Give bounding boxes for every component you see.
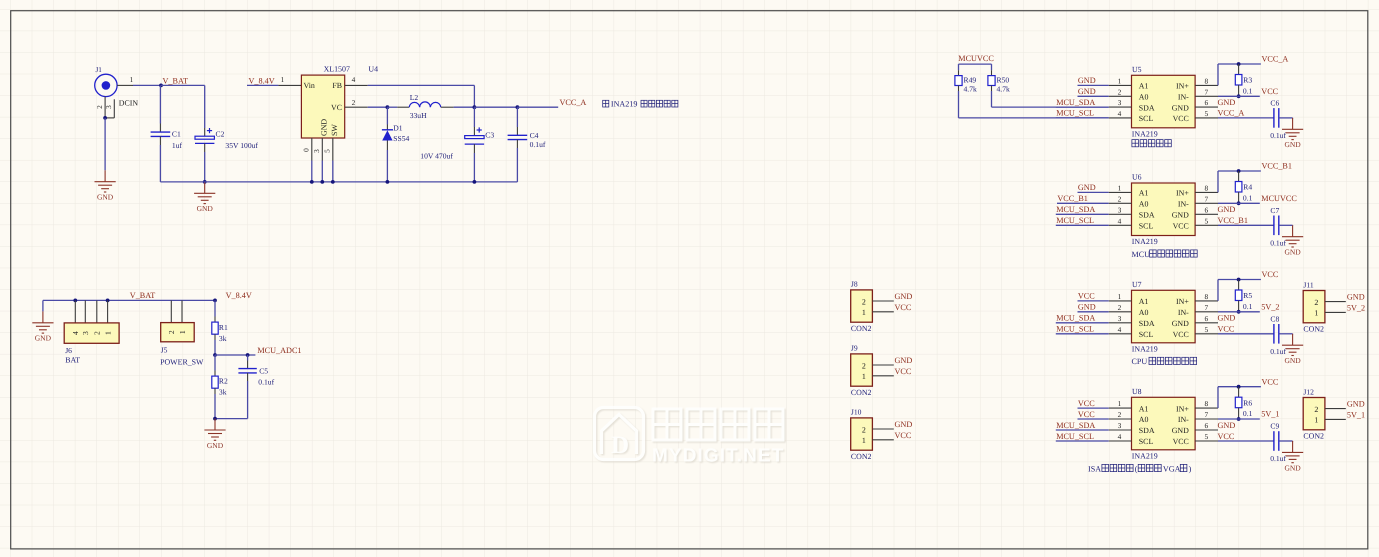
capacitor C4 (516, 107, 518, 127)
capacitor C8 (1274, 324, 1279, 344)
svg-text:5: 5 (322, 149, 331, 153)
junction U4 pin5/rail (331, 180, 335, 184)
U8 pin 7 (1195, 418, 1218, 420)
svg-text:SDA: SDA (1139, 103, 1155, 112)
op-amp U7 INA219 body (1132, 290, 1196, 343)
svg-text:VGA: VGA (1163, 464, 1181, 473)
wire VCC to C6 (1218, 117, 1274, 119)
svg-text:CON2: CON2 (851, 324, 872, 333)
svg-text:2: 2 (1118, 303, 1122, 312)
wire net VCC (1078, 418, 1109, 420)
svg-text:CON2: CON2 (851, 452, 872, 461)
svg-text:SDA: SDA (1139, 319, 1155, 328)
svg-text:VCC: VCC (1173, 114, 1189, 123)
svg-text:7: 7 (1204, 303, 1208, 312)
capacitor C5 (247, 355, 249, 361)
svg-text:SW: SW (330, 124, 339, 136)
watermark chinese characters (653, 409, 783, 440)
svg-text:0.1uf: 0.1uf (1270, 347, 1286, 356)
svg-text:VCC: VCC (1262, 377, 1279, 386)
junction D1 node (386, 105, 390, 109)
wire net VCC_B1 (1057, 202, 1109, 204)
wire U8 IN+ to VCC (1217, 387, 1219, 408)
junction C3/FB node (473, 105, 477, 109)
resistor R5 (1238, 280, 1240, 291)
wire net GND (1078, 95, 1109, 97)
U7 pin 8 (1195, 300, 1218, 302)
connector J12 CON2 (1303, 398, 1325, 430)
J9 pin 1 (872, 375, 893, 377)
svg-text:GND: GND (895, 420, 913, 429)
svg-text:0.1: 0.1 (1243, 86, 1253, 95)
junction R4 top (1237, 169, 1241, 173)
J1 pin 3 (113, 99, 115, 118)
U4 bottom pin 0 (311, 138, 313, 161)
svg-text:XL1507: XL1507 (324, 64, 350, 73)
svg-text:SDA: SDA (1139, 211, 1155, 220)
svg-text:1: 1 (1118, 76, 1122, 85)
svg-text:5V_2: 5V_2 (1261, 302, 1279, 311)
svg-text:VCC: VCC (1078, 292, 1095, 301)
svg-text:J1: J1 (96, 66, 103, 74)
svg-text:6: 6 (1204, 421, 1208, 430)
svg-text:GND: GND (895, 356, 913, 365)
op-amp U6 INA219 body (1132, 183, 1196, 236)
svg-text:4: 4 (1118, 325, 1122, 334)
J8 pin 2 (872, 300, 893, 302)
wire net GND (1078, 191, 1109, 193)
ground GND (divider) (204, 419, 225, 441)
wire net VCC (1078, 407, 1109, 409)
svg-text:33uH: 33uH (410, 111, 427, 120)
resistor R50 (991, 70, 993, 75)
wire VC to D1 node (368, 106, 388, 108)
junction R5/IN- (1237, 310, 1241, 314)
svg-text:U8: U8 (1132, 387, 1142, 396)
connector J9 CON2 (851, 354, 873, 386)
J8 pin 1 (872, 311, 893, 313)
junction R3/IN- (1237, 94, 1241, 98)
svg-text:3: 3 (1118, 314, 1122, 323)
svg-text:0.1uf: 0.1uf (1270, 454, 1286, 463)
svg-text:VCC: VCC (1218, 325, 1235, 334)
junction J1 pins (103, 116, 107, 120)
U7 pin 3 (1109, 322, 1132, 324)
U7 pin 2 (1109, 311, 1132, 313)
junction U4 pin3/rail (320, 180, 324, 184)
U6 pin 1 (1109, 191, 1132, 193)
svg-text:0.1uf: 0.1uf (530, 140, 546, 149)
J10 pin 2 (872, 428, 893, 430)
U6 pin 5 (1195, 224, 1218, 226)
svg-text:1: 1 (1314, 309, 1318, 318)
wire FB drop (473, 85, 475, 107)
svg-text:MCU_SDA: MCU_SDA (1056, 421, 1095, 430)
svg-text:J11: J11 (1303, 280, 1313, 289)
svg-text:1: 1 (1118, 183, 1122, 192)
wire V_BAT node to C2 (161, 84, 205, 86)
svg-text:4: 4 (1118, 432, 1122, 441)
capacitor C7 (1274, 216, 1279, 236)
J10 pin 1 (872, 439, 893, 441)
svg-text:GND: GND (320, 119, 329, 136)
J11 pin 2 (1325, 301, 1346, 303)
svg-text:2: 2 (167, 330, 176, 334)
svg-text:1: 1 (1118, 292, 1122, 301)
svg-text:A0: A0 (1139, 308, 1149, 317)
ground GND (battery) (32, 311, 53, 333)
svg-text:1: 1 (1118, 399, 1122, 408)
wire U6 IN+ to VCC_B1 (1217, 171, 1219, 192)
svg-text:2: 2 (862, 425, 866, 434)
wire net MCU_SDA (1056, 106, 1109, 108)
svg-text:2: 2 (1314, 298, 1318, 307)
svg-text:MCU_ADC1: MCU_ADC1 (257, 346, 301, 355)
svg-text:VCC: VCC (1173, 222, 1189, 231)
junction R2/ground (213, 417, 217, 421)
svg-text:GND: GND (1284, 463, 1301, 472)
svg-text:MCU_SCL: MCU_SCL (1056, 432, 1094, 441)
ground GND (C6) (1282, 118, 1303, 140)
svg-text:A0: A0 (1139, 415, 1149, 424)
junction C5 (246, 353, 250, 357)
svg-text:2: 2 (1118, 87, 1122, 96)
wire FB to output node (368, 84, 475, 86)
J11 pin 1 (1325, 311, 1346, 313)
svg-text:J12: J12 (1303, 387, 1314, 396)
svg-text:7: 7 (1204, 87, 1208, 96)
svg-text:4: 4 (1118, 109, 1122, 118)
svg-text:3: 3 (312, 149, 321, 153)
svg-text:4: 4 (352, 75, 356, 84)
junction C3/rail (473, 180, 477, 184)
svg-text:GND: GND (1172, 426, 1189, 435)
resistor R1 (214, 300, 216, 316)
svg-text:VCC_A: VCC_A (1262, 55, 1289, 64)
svg-text:INA219: INA219 (1132, 129, 1158, 138)
svg-text:D1: D1 (393, 123, 402, 132)
svg-text:C1: C1 (172, 130, 181, 139)
svg-text:2: 2 (862, 297, 866, 306)
wire VCC to C8 (1218, 333, 1274, 335)
U8 pin 2 (1109, 418, 1132, 420)
U8 pin 5 (1195, 440, 1218, 442)
svg-text:IN+: IN+ (1176, 404, 1189, 413)
wire IN- to VCC (1218, 95, 1260, 97)
wire MCU_ADC1 (215, 354, 255, 356)
wire IN- to MCUVCC (1218, 202, 1260, 204)
svg-text:5: 5 (1204, 325, 1208, 334)
svg-text:2: 2 (1314, 405, 1318, 414)
U6 pin 2 (1109, 202, 1132, 204)
capacitor C9 (1274, 431, 1279, 451)
svg-text:VCC: VCC (1173, 437, 1189, 446)
wire V_8.4V to U4 (247, 84, 278, 86)
U6 pin 7 (1195, 202, 1218, 204)
svg-text:BAT: BAT (65, 355, 80, 364)
svg-text:J8: J8 (851, 280, 858, 289)
svg-text:1: 1 (862, 308, 866, 317)
wire J1 to V_BAT node (133, 84, 161, 86)
wire IN- to 5V_1 (1218, 418, 1260, 420)
junction R3 top (1237, 62, 1241, 66)
svg-text:IN-: IN- (1178, 415, 1189, 424)
wire C8 to ground (1279, 333, 1293, 335)
svg-text:8: 8 (1204, 399, 1208, 408)
U5 pin 3 (1109, 106, 1132, 108)
U5 pin 7 (1195, 95, 1218, 97)
svg-text:Vin: Vin (304, 81, 315, 90)
inductor L2 (387, 106, 397, 108)
svg-text:2: 2 (352, 98, 356, 107)
svg-text:MCU_SDA: MCU_SDA (1056, 314, 1095, 323)
svg-text:5: 5 (1204, 432, 1208, 441)
svg-text:2: 2 (95, 105, 104, 109)
svg-text:GND: GND (97, 193, 114, 202)
svg-text:SS54: SS54 (393, 134, 409, 143)
svg-text:4: 4 (1118, 216, 1122, 225)
svg-text:C9: C9 (1270, 422, 1279, 431)
svg-text:5V_1: 5V_1 (1347, 411, 1365, 420)
svg-text:ISA: ISA (1088, 464, 1101, 473)
svg-text:2: 2 (1118, 194, 1122, 203)
svg-text:MCU_SCL: MCU_SCL (1056, 216, 1094, 225)
wire net MCU_SDA (1056, 322, 1109, 324)
wire MCUVCC (959, 63, 992, 65)
wire VCC to C9 (1218, 440, 1274, 442)
svg-text:4: 4 (71, 331, 80, 335)
connector J1 (DC jack) (95, 74, 117, 96)
svg-text:V_BAT: V_BAT (130, 291, 155, 300)
svg-text:10V 470uf: 10V 470uf (420, 151, 453, 160)
svg-text:0: 0 (301, 148, 310, 152)
svg-text:GND: GND (895, 292, 913, 301)
svg-text:GND: GND (1284, 356, 1301, 365)
U4 pin 4 (FB) (345, 84, 368, 86)
svg-text:4.7k: 4.7k (964, 85, 977, 94)
junction V_BAT (159, 84, 163, 88)
J1 pin 2 (104, 97, 106, 118)
resistor R3 (1238, 64, 1240, 75)
wire J1 to ground (104, 118, 106, 170)
svg-text:SDA: SDA (1139, 426, 1155, 435)
U6 pin 4 (1109, 224, 1132, 226)
connector J11 CON2 (1303, 291, 1325, 323)
svg-text:D: D (611, 432, 629, 459)
svg-text:1: 1 (862, 372, 866, 381)
svg-text:MCUVCC: MCUVCC (958, 54, 994, 63)
svg-text:VCC: VCC (895, 367, 912, 376)
svg-text:MCU_SDA: MCU_SDA (1056, 205, 1095, 214)
capacitor C2 (polarized) (204, 85, 206, 128)
wire net MCU_SDA (1056, 213, 1109, 215)
svg-text:CON2: CON2 (1303, 324, 1324, 333)
junction R6 top (1237, 385, 1241, 389)
svg-text:IN-: IN- (1178, 93, 1189, 102)
svg-text:INA219: INA219 (1132, 237, 1158, 246)
ground GND (J1) (95, 170, 116, 192)
svg-text:1: 1 (130, 75, 134, 84)
svg-text:1uf: 1uf (172, 141, 183, 150)
svg-text:VCC: VCC (895, 303, 912, 312)
junction MCU_ADC1 (213, 353, 217, 357)
svg-text:INA219: INA219 (1132, 451, 1158, 460)
U5 pin 8 (1195, 84, 1218, 86)
svg-text:C5: C5 (259, 366, 268, 375)
op-amp U8 INA219 body (1132, 397, 1196, 450)
wire net MCU_SCL (1056, 224, 1109, 226)
J1 pin 1 (117, 84, 133, 86)
svg-text:J6: J6 (65, 346, 72, 355)
svg-text:SCL: SCL (1139, 330, 1154, 339)
svg-text:C7: C7 (1270, 206, 1279, 215)
U5 pin 4 (1109, 117, 1132, 119)
U5 pin 6 (1195, 106, 1218, 108)
svg-text:1: 1 (281, 75, 285, 84)
svg-text:R4: R4 (1243, 183, 1252, 192)
U8 pin 6 (1195, 429, 1218, 431)
svg-text:8: 8 (1204, 76, 1208, 85)
svg-text:8: 8 (1204, 183, 1208, 192)
svg-text:VCC: VCC (1078, 399, 1095, 408)
U4 bottom pin 3 (321, 138, 323, 161)
svg-text:GND: GND (1078, 183, 1096, 192)
svg-text:GND: GND (1347, 293, 1365, 302)
svg-text:GND: GND (1284, 248, 1301, 257)
svg-text:GND: GND (1078, 303, 1096, 312)
U6 pin 3 (1109, 213, 1132, 215)
connector J6 BAT (74, 300, 76, 323)
svg-text:MCU: MCU (1132, 250, 1151, 259)
svg-text:R50: R50 (997, 75, 1010, 84)
J12 pin 1 (1325, 418, 1346, 420)
U8 pin 1 (1109, 407, 1132, 409)
wire net MCU_SCL (1056, 117, 1109, 119)
svg-text:GND: GND (1172, 211, 1189, 220)
svg-text:U7: U7 (1132, 280, 1142, 289)
wire C7 to ground (1279, 224, 1293, 226)
svg-text:0.1uf: 0.1uf (1270, 131, 1286, 140)
svg-text:CON2: CON2 (1303, 431, 1324, 440)
svg-text:1: 1 (178, 330, 187, 334)
wire VCC to C7 (1218, 224, 1274, 226)
wire net MCU_SCL (1056, 440, 1109, 442)
U7 pin 6 (1195, 322, 1218, 324)
U8 pin 4 (1109, 440, 1132, 442)
svg-text:L2: L2 (410, 93, 419, 102)
U7 pin 5 (1195, 333, 1218, 335)
svg-text:GND: GND (1172, 103, 1189, 112)
svg-text:R1: R1 (219, 323, 228, 332)
svg-text:3: 3 (104, 105, 113, 109)
svg-text:U5: U5 (1132, 65, 1142, 74)
op-amp U5 INA219 body (1132, 75, 1196, 128)
svg-text:IN-: IN- (1178, 200, 1189, 209)
wire C6 to ground (1279, 117, 1293, 119)
connector J5 POWER_SW (170, 300, 172, 322)
svg-text:5V_2: 5V_2 (1347, 304, 1365, 313)
U4 bottom pin 5 (332, 138, 334, 161)
wire net GND (1078, 84, 1109, 86)
U7 pin 1 (1109, 300, 1132, 302)
U5 pin 5 (1195, 117, 1218, 119)
svg-text:A0: A0 (1139, 93, 1149, 102)
wire battery top rail (43, 299, 215, 301)
regulator U4 XL1507 body (301, 75, 344, 138)
svg-text:3k: 3k (219, 388, 227, 397)
ground GND (C8) (1282, 334, 1303, 356)
svg-text:GND: GND (1347, 400, 1365, 409)
svg-text:2: 2 (862, 361, 866, 370)
svg-text:A1: A1 (1139, 297, 1149, 306)
svg-text:FB: FB (332, 81, 342, 90)
wire R49 to MCU_SCL (958, 91, 960, 118)
svg-text:VCC_A: VCC_A (1218, 109, 1245, 118)
svg-text:GND: GND (1218, 98, 1236, 107)
svg-text:GND: GND (1078, 76, 1096, 85)
svg-text:5V_1: 5V_1 (1261, 410, 1279, 419)
svg-text:6: 6 (1204, 98, 1208, 107)
wire net GND (1078, 311, 1109, 313)
junction C2/ground (203, 180, 207, 184)
wire C5 bottom (215, 418, 248, 420)
svg-text:7: 7 (1204, 194, 1208, 203)
svg-text:GND: GND (35, 334, 52, 343)
svg-text:2: 2 (93, 331, 102, 335)
capacitor C1 (159, 85, 161, 123)
svg-text:IN-: IN- (1178, 308, 1189, 317)
note text 接INA219 总电流检测 (603, 100, 609, 107)
svg-text:VCC: VCC (895, 431, 912, 440)
svg-text:1: 1 (1314, 416, 1318, 425)
svg-text:MCU_SCL: MCU_SCL (1056, 109, 1094, 118)
junction J6 pin4 (73, 299, 77, 303)
svg-text:C8: C8 (1270, 314, 1279, 323)
J12 pin 2 (1325, 408, 1346, 410)
U8 pin 3 (1109, 429, 1132, 431)
svg-text:VCC: VCC (1218, 432, 1235, 441)
svg-text:0.1uf: 0.1uf (1270, 239, 1286, 248)
svg-text:R2: R2 (219, 377, 228, 386)
wire IN- to 5V_2 (1218, 311, 1260, 313)
svg-text:GND: GND (1218, 314, 1236, 323)
resistor R49 (958, 70, 960, 75)
svg-text:V_8.4V: V_8.4V (249, 76, 275, 85)
svg-text:7: 7 (1204, 410, 1208, 419)
svg-text:VCC: VCC (1078, 410, 1095, 419)
svg-text:IN+: IN+ (1176, 189, 1189, 198)
junction C4 node (516, 105, 520, 109)
U4 pin 2 (VC) (345, 106, 368, 108)
svg-text:6: 6 (1204, 314, 1208, 323)
wire U7 IN+ to VCC (1217, 280, 1219, 301)
svg-text:MCU_SDA: MCU_SDA (1056, 98, 1095, 107)
svg-text:DCIN: DCIN (119, 98, 139, 107)
svg-text:0.1: 0.1 (1243, 302, 1253, 311)
svg-text:0.1: 0.1 (1243, 409, 1253, 418)
svg-text:A1: A1 (1139, 189, 1149, 198)
wire C9 to ground (1279, 440, 1293, 442)
U7 pin 4 (1109, 333, 1132, 335)
U4 pin 1 (278, 84, 301, 86)
svg-text:6: 6 (1204, 205, 1208, 214)
svg-text:VCC: VCC (1261, 87, 1278, 96)
svg-text:GND: GND (1284, 140, 1301, 149)
svg-text:GND: GND (1218, 421, 1236, 430)
svg-text:R6: R6 (1243, 398, 1252, 407)
svg-text:INA219: INA219 (611, 99, 638, 108)
wire net MCU_SDA (1056, 429, 1109, 431)
